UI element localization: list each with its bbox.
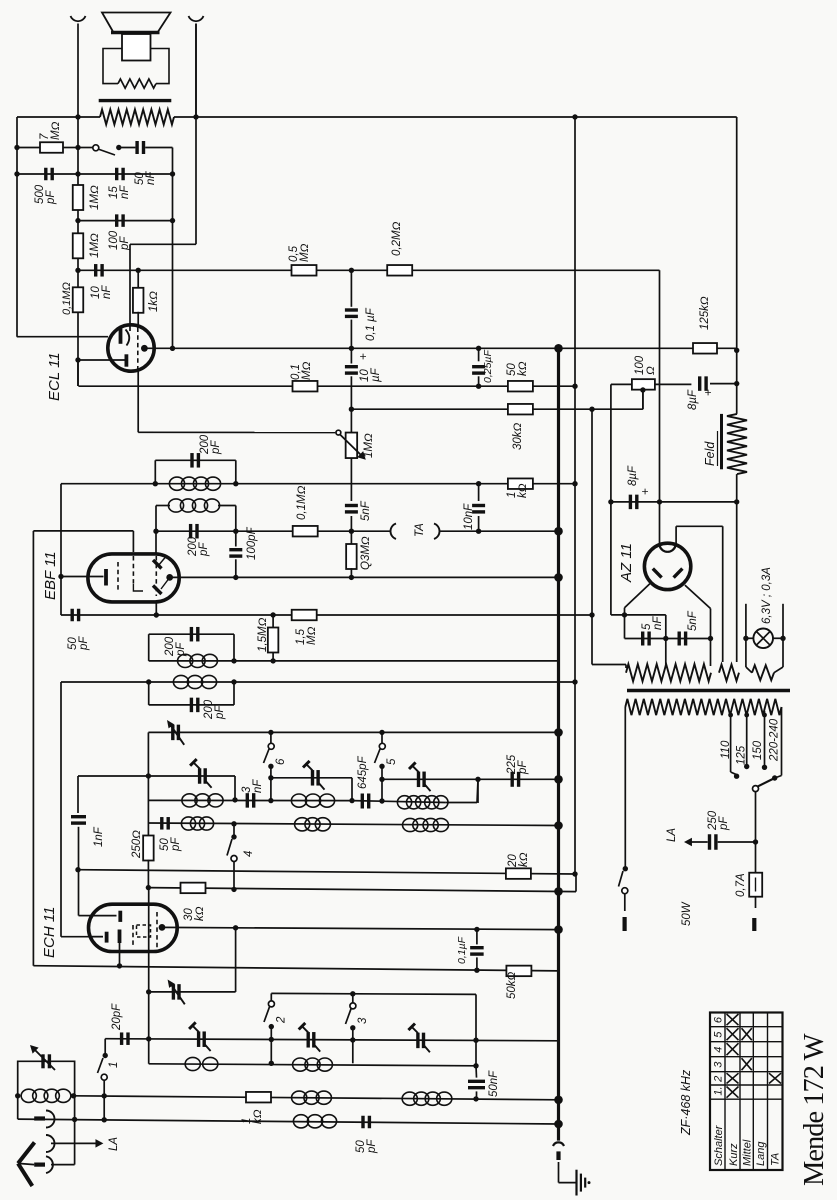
label Feld <box>703 431 718 466</box>
capacitor 5nF b <box>679 632 685 646</box>
svg-text:4: 4 <box>713 1047 725 1053</box>
heater winding <box>592 639 711 682</box>
wire net-B+ top rail <box>17 116 737 118</box>
capacitor 200pF IFT2a <box>192 453 198 468</box>
wire pot bottom <box>350 458 352 483</box>
label 50pF ant <box>355 1139 378 1154</box>
wire net-776 osc1 <box>78 776 235 800</box>
node 1040 d <box>473 1038 478 1043</box>
node fb1 c <box>170 171 175 176</box>
wire left vert a <box>60 484 62 615</box>
label sw5 <box>386 758 398 765</box>
wire az cath <box>659 502 661 547</box>
label 1k ant <box>241 1109 264 1124</box>
label 645pF <box>357 755 369 789</box>
svg-text:20pF: 20pF <box>111 1003 123 1031</box>
svg-text:+: + <box>638 488 652 495</box>
wire osc left vert <box>147 732 149 823</box>
svg-text:1MΩ: 1MΩ <box>89 233 101 258</box>
node EBF cath <box>58 574 63 579</box>
resistor 1MOhm a <box>73 185 84 210</box>
label 15nF <box>108 185 131 199</box>
node 615 a <box>154 612 159 617</box>
svg-text:Feld: Feld <box>703 441 717 466</box>
node coupling c <box>349 268 354 273</box>
label ECH11 <box>41 907 58 958</box>
svg-text:125kΩ: 125kΩ <box>699 296 711 330</box>
fuse 0.7A <box>749 842 762 931</box>
resistor 30kOhm ps <box>508 404 533 415</box>
trimmer osc b <box>190 759 212 788</box>
capacitor 10nF det <box>472 484 485 532</box>
node 967 b <box>474 968 479 973</box>
svg-text:pF: pF <box>198 542 210 557</box>
osc lower coil 1 <box>181 817 213 830</box>
capacitor 0.1uF <box>345 270 358 348</box>
resistor 125kOhm <box>693 343 717 354</box>
capacitor 250pF LA <box>684 834 756 850</box>
svg-text:1: 1 <box>108 1062 120 1068</box>
resistor 1kOhm cathode <box>133 270 144 327</box>
node 502 c <box>734 499 739 504</box>
svg-text:nF: nF <box>119 185 131 199</box>
node 577 rail <box>554 573 563 582</box>
label 50pF osc <box>159 837 182 852</box>
svg-text:pF: pF <box>78 636 90 651</box>
svg-text:0,1MΩ: 0,1MΩ <box>296 485 308 520</box>
osc coil 1 <box>182 794 223 807</box>
trimmer ant a <box>189 1022 211 1051</box>
label 5nF <box>360 500 372 521</box>
svg-text:1kΩ: 1kΩ <box>148 291 160 312</box>
label 200pF IFT2b <box>187 536 210 557</box>
wire wiper <box>138 431 335 433</box>
capacitor 8uF b <box>630 495 636 510</box>
node anode right <box>734 348 739 353</box>
node 1063 a <box>269 1061 274 1066</box>
svg-text:50nF: 50nF <box>488 1070 500 1097</box>
node 889 rail <box>554 887 563 896</box>
svg-text:kΩ: kΩ <box>517 483 529 498</box>
trimmer ant c <box>408 1024 430 1053</box>
node ant coil r <box>71 1093 76 1098</box>
wire b+ right vert <box>575 117 576 892</box>
node 732 sw5 <box>379 730 384 735</box>
label 1k <box>148 291 160 312</box>
resistor 1kOhm ant <box>246 1092 271 1103</box>
osc coil 2 <box>291 794 334 807</box>
wire 30k feed <box>591 409 593 664</box>
tube ECL11 <box>108 325 154 371</box>
svg-text:1nF: 1nF <box>93 826 105 847</box>
node 823 rail <box>554 821 563 830</box>
label 0.1M py386 <box>290 361 313 380</box>
node 800 d <box>379 798 384 803</box>
svg-text:5nF: 5nF <box>360 500 372 521</box>
wire pentode screen stem <box>137 370 139 433</box>
svg-text:150: 150 <box>752 740 764 760</box>
ant coil 2 <box>293 1058 333 1071</box>
node 871 b <box>572 871 577 876</box>
wire net-780 osc3 <box>382 778 559 780</box>
resistor 0.3MOhm <box>346 531 357 577</box>
label 50k py386 <box>506 361 529 376</box>
node 889 a <box>146 885 151 890</box>
wire agc down <box>32 531 34 966</box>
tap 125 <box>744 711 749 769</box>
svg-text:TA: TA <box>414 523 426 537</box>
switch table grid <box>710 1013 783 1171</box>
svg-text:125: 125 <box>736 745 748 765</box>
antenna coil <box>21 1089 71 1102</box>
resistor 7MOhm <box>17 142 78 153</box>
switch 5 <box>375 732 386 800</box>
node anode c2 <box>476 346 481 351</box>
node anode c1 <box>349 346 354 351</box>
ant coil 5 <box>293 1115 336 1128</box>
svg-text:0,2MΩ: 0,2MΩ <box>391 221 403 256</box>
capacitor 20pF <box>122 1032 128 1045</box>
node 5nf mid <box>663 636 668 641</box>
label 3nF <box>241 779 264 793</box>
node 531 rail <box>554 527 563 536</box>
table X marks <box>727 1014 782 1098</box>
wire cathode net <box>78 359 125 361</box>
wire 1nF vert <box>71 776 89 916</box>
wire 50nF vert <box>475 1040 478 1099</box>
node 502 a <box>608 499 613 504</box>
title Mende 172 W <box>799 1033 830 1186</box>
label 125k <box>699 296 711 330</box>
switch 2 <box>264 1001 274 1063</box>
label 0.1M agc <box>296 485 308 520</box>
resistor 20kOhm <box>506 868 531 879</box>
node B+ tap <box>572 114 577 119</box>
wire chassis rail <box>557 346 560 1141</box>
label 100ohm <box>634 355 657 375</box>
switch 3 <box>346 994 356 1064</box>
svg-text:3: 3 <box>357 1017 369 1024</box>
svg-text:250Ω: 250Ω <box>131 830 143 859</box>
wire net-1121 <box>18 1119 559 1124</box>
node 1121 b <box>102 1117 107 1122</box>
corner 615 left <box>60 614 62 616</box>
jack TA <box>390 524 439 540</box>
node 409 b <box>589 407 594 412</box>
label 1.5M v <box>257 617 269 652</box>
output transformer primary winding <box>100 110 174 125</box>
capacitor 100pF det <box>229 531 242 577</box>
resistor 0.2MOhm <box>387 265 412 276</box>
IFT2 primary cap loop <box>155 460 236 483</box>
label 250pF <box>707 810 730 831</box>
node 800 c <box>349 798 354 803</box>
resistor 1MOhm b <box>73 233 84 258</box>
label 0.7A <box>735 873 747 897</box>
capacitor 200pF IFT1b <box>191 698 197 713</box>
wire net-anode py348 <box>144 347 736 349</box>
label 125 <box>736 745 748 765</box>
label 10nF det <box>463 503 475 530</box>
svg-text:AZ 11: AZ 11 <box>618 543 635 583</box>
wire pot top <box>350 409 352 432</box>
node cathode <box>75 357 80 362</box>
IFT1 cap loop <box>149 634 234 661</box>
osc lower coil 2 <box>295 818 331 831</box>
node 1040 c <box>350 1037 355 1042</box>
label sw1 <box>108 1062 120 1068</box>
mains left lead <box>623 707 628 871</box>
node 928 a <box>233 925 238 930</box>
svg-text:0,1µF: 0,1µF <box>456 936 468 964</box>
antenna symbol <box>18 1142 35 1186</box>
svg-text:pF: pF <box>214 705 226 720</box>
trimmer ant b <box>299 1023 321 1052</box>
primary winding <box>625 699 781 715</box>
label sw6 <box>275 758 287 765</box>
label 1M pot <box>363 433 375 458</box>
wire net-610 vert <box>610 384 612 615</box>
resistor 30kOhm osc <box>181 883 206 894</box>
label 8uF b <box>627 465 652 495</box>
node fb2 a <box>75 218 80 223</box>
label 0.25uF <box>482 350 494 383</box>
resistor 1kOhm det <box>508 478 533 489</box>
wire pad vert <box>477 779 479 803</box>
wire sw23 top <box>271 993 476 1040</box>
transformer core <box>627 689 790 693</box>
label 200pF IFT1a <box>164 636 187 657</box>
label 30k osc <box>183 906 206 921</box>
svg-text:pF: pF <box>119 236 131 251</box>
wire net-5nF <box>625 638 711 640</box>
label 150 <box>752 740 764 760</box>
wire ECH cathode wire <box>61 936 103 938</box>
wire net-1097 <box>74 1096 559 1100</box>
svg-text:TA: TA <box>770 1153 782 1166</box>
node 1040 a <box>146 1036 151 1041</box>
wire osc grid vert <box>148 888 150 1064</box>
svg-text:Kurz: Kurz <box>728 1143 740 1166</box>
svg-text:6,3V ; 0,3A: 6,3V ; 0,3A <box>761 567 773 624</box>
trimmer osc main <box>168 980 185 1005</box>
svg-text:30kΩ: 30kΩ <box>512 422 524 450</box>
node 531 b <box>476 529 481 534</box>
label 50k cath <box>506 971 518 999</box>
capacitor 10uF electrolytic <box>345 348 358 409</box>
label 0.1uF osc <box>456 936 468 964</box>
wire b+ right rail <box>736 117 738 414</box>
wire net-fb1 <box>17 173 173 175</box>
svg-text:nF: nF <box>145 171 157 185</box>
ground symbol <box>577 1170 591 1196</box>
resistor 50kOhm cath <box>506 966 531 977</box>
svg-text:pF: pF <box>210 440 222 455</box>
table digits <box>713 1016 725 1096</box>
svg-text:1,5MΩ: 1,5MΩ <box>257 617 269 652</box>
node ant coil l <box>15 1093 20 1098</box>
node 615 c <box>589 612 594 617</box>
IFT1 secondary coil <box>173 675 216 688</box>
node 661 b <box>270 658 275 663</box>
svg-text:pF: pF <box>517 760 529 775</box>
label 10nF <box>90 285 113 299</box>
tap 110 <box>728 711 739 779</box>
resistor 250Ohm <box>143 823 154 888</box>
label 50nF tone <box>134 171 157 185</box>
wire az second anode <box>676 526 723 662</box>
wire net-615 <box>61 614 592 616</box>
node 386 a <box>476 384 481 389</box>
svg-text:LA: LA <box>666 828 678 842</box>
jack A3 plug <box>34 1156 74 1173</box>
node 871 a <box>75 867 80 872</box>
wire triode grid <box>17 336 108 338</box>
wire 0.2M down <box>659 270 661 502</box>
wire EBF grid stem <box>155 531 157 554</box>
ant coil 4 <box>402 1092 452 1105</box>
wire EBF diode stem <box>155 602 157 615</box>
antenna tuned frame <box>18 1061 75 1164</box>
speaker terminal clip 1 <box>71 16 86 117</box>
node 1097 b <box>473 1096 478 1101</box>
svg-text:pF: pF <box>366 1139 378 1154</box>
wire net-agc <box>33 531 133 552</box>
label 5nF a <box>641 616 664 630</box>
resistor 0.1MOhm agc <box>293 526 318 537</box>
trimmer osc c <box>303 761 325 790</box>
svg-text:2: 2 <box>276 1016 288 1024</box>
capacitor 500pF <box>46 168 52 181</box>
label 0.5M <box>288 243 311 262</box>
node grid corner <box>16 336 18 338</box>
wire net-871 <box>78 870 575 874</box>
wire net-992 <box>149 928 236 992</box>
resistor 50kOhm py386 <box>508 381 533 392</box>
wire net-800 <box>148 779 478 802</box>
label 200pF IFT2a <box>199 434 222 455</box>
node fb1 b <box>75 171 80 176</box>
svg-text:Ω: Ω <box>645 366 657 375</box>
node primary left <box>75 114 80 119</box>
speaker terminal clip 2 <box>189 16 204 117</box>
node 502 b <box>657 499 662 504</box>
svg-text:ECH 11: ECH 11 <box>41 907 58 958</box>
wire grid return <box>60 615 62 937</box>
node anode fb <box>170 346 175 351</box>
label 0.2M <box>391 221 403 256</box>
label 30k ps <box>512 422 524 450</box>
node 661 a <box>231 658 236 663</box>
capacitor 200pF IFT2b <box>191 524 197 539</box>
label Q3M <box>360 536 372 570</box>
wire net-577 anode EBF <box>170 576 559 578</box>
label 110 <box>720 740 732 759</box>
svg-text:Lang: Lang <box>755 1141 767 1166</box>
svg-text:Mende 172 W: Mende 172 W <box>799 1033 830 1186</box>
IFT2 primary coil <box>169 477 220 490</box>
node 1097 a <box>102 1093 107 1098</box>
osc lower coil 3 <box>403 818 449 831</box>
label 1nF <box>93 826 105 847</box>
node 889 b <box>231 887 236 892</box>
switch 6 <box>264 732 275 800</box>
IFT1 primary coil <box>178 654 218 667</box>
node coupling a <box>75 268 80 273</box>
node 992 a <box>146 989 151 994</box>
capacitor 50pF ebf <box>72 609 78 622</box>
tap 220-240 <box>772 707 782 781</box>
svg-text:pF: pF <box>718 816 730 831</box>
wire net-779 osc2 <box>271 778 352 801</box>
lamp circuit <box>746 604 783 680</box>
node fb1 a <box>14 171 19 176</box>
node 1121 a <box>72 1117 77 1122</box>
label 100pF fb <box>108 230 131 251</box>
trimmer osc d <box>409 762 431 791</box>
wire net-502 <box>611 501 737 503</box>
switch tone <box>78 145 122 155</box>
tube EBF11 <box>88 554 179 602</box>
node 967 a <box>117 963 122 968</box>
label 1.5M h <box>295 626 318 645</box>
label 7MOhm <box>39 121 62 140</box>
svg-text:0,1 µF: 0,1 µF <box>365 307 377 341</box>
wire net-fb2 <box>78 220 173 222</box>
table labels <box>713 1124 782 1166</box>
svg-text:50kΩ: 50kΩ <box>506 971 518 999</box>
capacitor 645pF <box>362 794 368 809</box>
svg-text:µF: µF <box>370 367 382 382</box>
capacitor 50pF osc <box>162 817 168 830</box>
svg-text:LA: LA <box>108 1137 120 1151</box>
svg-text:MΩ: MΩ <box>50 121 62 140</box>
node 780 rail <box>554 775 563 784</box>
label 8uF a <box>687 389 715 410</box>
svg-text:8µF: 8µF <box>627 465 639 486</box>
svg-text:pF: pF <box>170 837 182 852</box>
node 776 a <box>146 773 151 778</box>
label AZ11 <box>618 543 635 583</box>
label sw4 <box>243 851 255 857</box>
capacitor 225pF <box>512 772 518 787</box>
label 20pF <box>111 1003 123 1031</box>
label 50pF ebf <box>67 636 90 651</box>
label ZF <box>679 1069 693 1136</box>
svg-text:110: 110 <box>720 740 732 759</box>
trimmer osc a <box>167 720 184 745</box>
node 7M right <box>75 145 80 150</box>
node 800 b <box>268 798 273 803</box>
pot arrow <box>340 435 366 460</box>
mains switch 50W <box>619 871 628 931</box>
switch 1 <box>98 1053 108 1120</box>
label ECL11 <box>46 352 63 401</box>
svg-text:5: 5 <box>386 758 398 765</box>
label 225pF <box>506 754 529 775</box>
node 531 a <box>349 529 354 534</box>
svg-text:nF: nF <box>652 616 664 630</box>
capacitor 0.25uF <box>472 348 485 386</box>
node 386 b <box>572 384 577 389</box>
label 100pF det <box>246 526 258 560</box>
label 1k det <box>506 483 529 498</box>
label +10uF <box>356 353 382 382</box>
node IFT2s left <box>153 529 158 534</box>
capacitor 3nF <box>247 793 253 808</box>
capacitor 0.1uF osc <box>470 929 484 970</box>
svg-text:ECL 11: ECL 11 <box>46 352 63 401</box>
